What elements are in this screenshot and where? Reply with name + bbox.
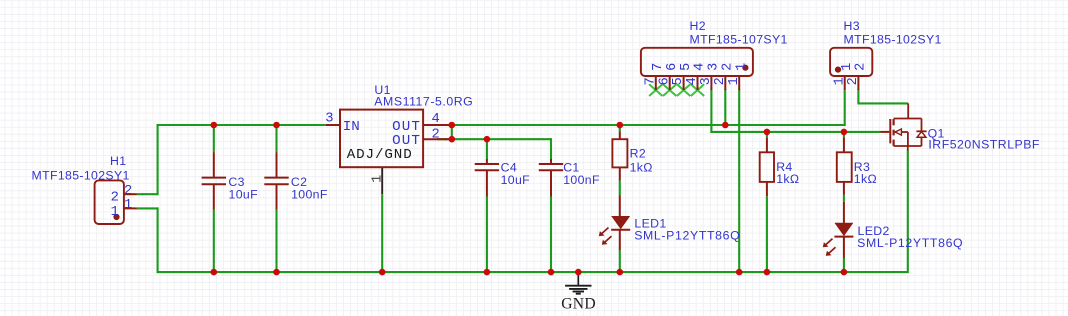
svg-text:MTF185-107SY1: MTF185-107SY1: [690, 33, 788, 47]
svg-text:6: 6: [665, 63, 680, 71]
svg-text:MTF185-102SY1: MTF185-102SY1: [32, 168, 130, 182]
svg-text:4: 4: [432, 112, 440, 127]
svg-text:4: 4: [685, 77, 700, 85]
svg-text:2: 2: [713, 77, 728, 85]
svg-text:2: 2: [124, 184, 132, 199]
svg-text:3: 3: [699, 77, 714, 85]
svg-text:1kΩ: 1kΩ: [854, 172, 877, 186]
svg-text:SML-P12YTT86Q: SML-P12YTT86Q: [634, 229, 740, 243]
svg-text:1kΩ: 1kΩ: [630, 161, 653, 175]
svg-text:H3: H3: [844, 19, 860, 33]
svg-text:2: 2: [432, 128, 440, 143]
svg-text:1kΩ: 1kΩ: [776, 172, 799, 186]
svg-text:4: 4: [693, 63, 708, 71]
svg-text:1: 1: [727, 77, 742, 85]
svg-text:H2: H2: [690, 19, 706, 33]
svg-text:SML-P12YTT86Q: SML-P12YTT86Q: [857, 236, 963, 250]
svg-text:10uF: 10uF: [229, 188, 259, 202]
svg-text:7: 7: [651, 63, 666, 71]
svg-text:100nF: 100nF: [563, 173, 600, 187]
svg-text:ADJ/GND: ADJ/GND: [347, 147, 413, 163]
svg-text:1: 1: [124, 198, 132, 213]
svg-text:2: 2: [111, 191, 119, 206]
svg-text:2: 2: [721, 63, 736, 71]
svg-text:6: 6: [657, 77, 672, 85]
svg-text:MTF185-102SY1: MTF185-102SY1: [844, 33, 942, 47]
svg-text:100nF: 100nF: [291, 188, 328, 202]
svg-text:IN: IN: [343, 119, 360, 135]
svg-text:3: 3: [707, 63, 722, 71]
svg-text:AMS1117-5.0RG: AMS1117-5.0RG: [374, 95, 473, 109]
svg-text:GND: GND: [561, 296, 596, 313]
svg-text:IRF520NSTRLPBF: IRF520NSTRLPBF: [928, 138, 1040, 152]
svg-text:2: 2: [854, 63, 869, 71]
svg-text:H1: H1: [110, 154, 126, 168]
svg-text:5: 5: [679, 63, 694, 71]
svg-text:1: 1: [371, 175, 386, 183]
svg-text:2: 2: [846, 77, 861, 85]
svg-text:7: 7: [643, 77, 658, 85]
svg-text:R2: R2: [630, 146, 646, 160]
svg-text:1: 1: [734, 63, 749, 71]
svg-text:5: 5: [671, 77, 686, 85]
svg-text:10uF: 10uF: [501, 173, 531, 187]
svg-text:3: 3: [325, 112, 333, 127]
svg-text:1: 1: [111, 205, 119, 220]
